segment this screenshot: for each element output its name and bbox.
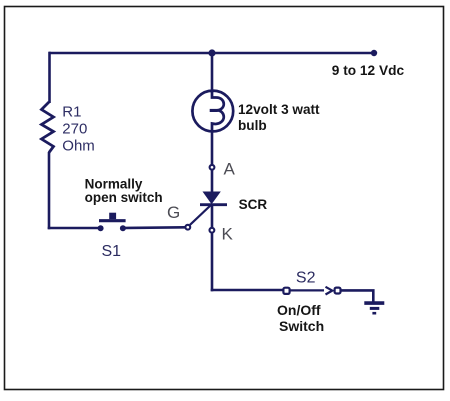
lamp DS1 12volt 3 watt bulb bbox=[192, 91, 233, 132]
wire S1 to gate node bbox=[123, 226, 185, 229]
wire cathode down bbox=[211, 233, 214, 292]
switch S2 bbox=[283, 287, 340, 295]
wire anode to SCR bbox=[211, 171, 214, 193]
svg-text:bulb: bulb bbox=[238, 118, 267, 133]
switch S1 pushbutton bbox=[98, 213, 126, 232]
svg-text:open switch: open switch bbox=[85, 190, 163, 205]
svg-text:9 to 12 Vdc: 9 to 12 Vdc bbox=[332, 63, 405, 78]
wire bottom-left horizontal bbox=[48, 227, 100, 230]
wire S2 to ground bbox=[340, 290, 373, 301]
node junction dot top bbox=[208, 49, 215, 56]
wire bulb to anode node bbox=[211, 131, 214, 166]
node supply terminal dot bbox=[371, 50, 377, 56]
svg-text:270: 270 bbox=[62, 120, 87, 137]
node gate terminal bbox=[185, 225, 190, 230]
svg-text:R1: R1 bbox=[62, 103, 81, 120]
svg-text:Switch: Switch bbox=[279, 318, 324, 334]
wire bottom horizontal to S2 bbox=[211, 289, 283, 292]
resistor R1 bbox=[42, 102, 54, 153]
svg-text:G: G bbox=[167, 203, 180, 222]
svg-text:S2: S2 bbox=[296, 270, 316, 287]
node A terminal bbox=[210, 165, 215, 170]
svg-text:Ohm: Ohm bbox=[62, 137, 95, 154]
svg-text:On/Off: On/Off bbox=[277, 302, 321, 318]
node K terminal bbox=[210, 228, 215, 233]
svg-text:A: A bbox=[224, 160, 236, 179]
wire left vertical upper bbox=[48, 52, 51, 103]
wire junction to bulb bbox=[211, 53, 214, 93]
wire gate lead diagonal bbox=[190, 205, 212, 225]
svg-text:12volt 3 watt: 12volt 3 watt bbox=[238, 102, 320, 117]
svg-text:S1: S1 bbox=[102, 243, 122, 260]
SCR Q1 thyristor bbox=[200, 192, 227, 205]
ground bbox=[364, 303, 384, 313]
svg-text:K: K bbox=[222, 225, 234, 244]
wire top horizontal bbox=[49, 52, 375, 55]
svg-text:SCR: SCR bbox=[239, 197, 268, 212]
wire left vertical lower bbox=[48, 152, 51, 229]
wire SCR to cathode node bbox=[211, 205, 214, 228]
